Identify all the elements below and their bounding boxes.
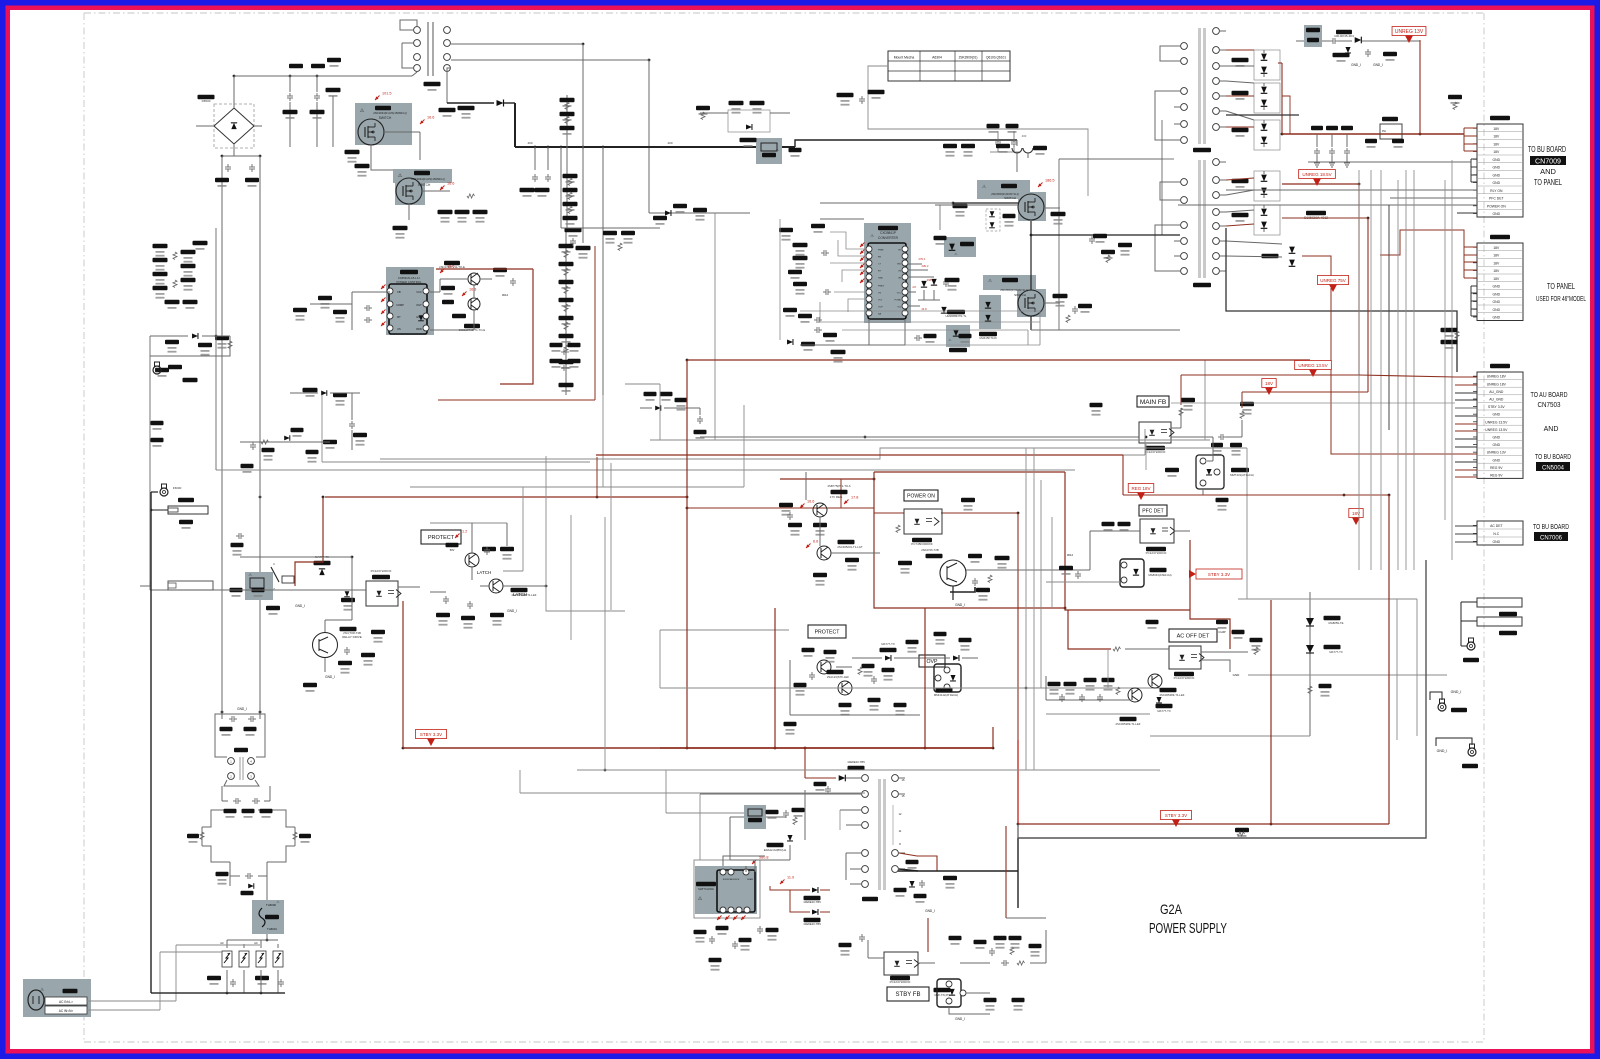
svg-text:3612: 3612 [1067,553,1074,557]
svg-text:GND: GND [1493,181,1501,185]
svg-text:CONVERTER: CONVERTER [878,236,899,240]
svg-text:UNREG 13.5V: UNREG 13.5V [1298,363,1327,368]
svg-text:AC IN<L>: AC IN<L> [59,1000,73,1004]
svg-text:POWER ON: POWER ON [907,493,935,499]
svg-text:REG 9V: REG 9V [1490,466,1503,470]
svg-text:RDD: RDD [416,327,422,331]
svg-text:STBY FB: STBY FB [896,992,921,998]
svg-text:MMT431(AT1ECH): MMT431(AT1ECH) [1230,473,1254,477]
svg-text:SOURCE: SOURCE [731,879,740,881]
svg-text:2SC305201-T1-LGT: 2SC305201-T1-LGT [837,545,863,549]
svg-text:Mount Mecha: Mount Mecha [894,56,915,60]
svg-text:CN7503: CN7503 [1538,402,1561,409]
svg-text:18V: 18V [1493,135,1500,139]
svg-text:⚠: ⚠ [775,147,779,152]
svg-text:106-RK35-3K3: 106-RK35-3K3 [1334,34,1354,38]
svg-text:GND_I: GND_I [295,604,305,608]
svg-text:AU_GND: AU_GND [1489,398,1504,402]
svg-text:PWM: PWM [878,250,884,252]
svg-text:GND: GND [1233,673,1241,677]
svg-text:MA777-TX: MA777-TX [881,642,895,646]
svg-text:PC745F0000XF: PC745F0000XF [911,542,933,546]
svg-text:18V: 18V [1493,277,1500,281]
svg-text:TO PANEL: TO PANEL [1547,282,1575,291]
svg-text:TH6000: TH6000 [266,903,276,907]
svg-text:18V: 18V [1493,269,1500,273]
svg-text:GND_I: GND_I [955,603,965,607]
svg-text:GND_I: GND_I [237,707,247,711]
svg-text:RELAY DRIVE: RELAY DRIVE [342,635,362,639]
svg-text:GND: GND [1493,292,1501,296]
svg-text:USED FOR 46"MODEL: USED FOR 46"MODEL [1536,296,1586,303]
svg-text:GND: GND [1493,436,1501,440]
svg-text:PC123Y22DOF: PC123Y22DOF [371,569,392,573]
svg-text:GND: GND [878,278,883,280]
svg-text:2SK3500(01)SONY1LQ: 2SK3500(01)SONY1LQ [1000,288,1028,292]
svg-text:2SC305289-T1-LEF: 2SC305289-T1-LEF [1115,722,1140,726]
svg-text:AC IN<N>: AC IN<N> [59,1009,74,1013]
svg-text:MA8059-TE: MA8059-TE [1329,621,1344,625]
svg-text:10E8E20-TB5: 10E8E20-TB5 [847,760,865,764]
svg-text:UNREG 13V: UNREG 13V [1395,29,1424,35]
svg-text:RT: RT [397,315,401,319]
svg-text:2SC305289-T1-LEF: 2SC305289-T1-LEF [1159,693,1184,697]
svg-text:6.6: 6.6 [813,540,818,544]
svg-text:PROTECT: PROTECT [815,629,841,635]
svg-text:AND: AND [1540,167,1556,176]
svg-text:TH6001: TH6001 [267,927,277,931]
svg-text:UNREG 75V: UNREG 75V [1320,278,1346,283]
svg-text:CN7006: CN7006 [1540,536,1563,542]
svg-text:Q6100,Q6101: Q6100,Q6101 [986,56,1006,60]
svg-text:UNREG 13.5V: UNREG 13.5V [1485,420,1508,424]
svg-text:GND: GND [1493,540,1501,544]
svg-text:TO BU BOARD: TO BU BOARD [1528,145,1566,154]
svg-text:N.C: N.C [1493,532,1499,536]
svg-text:SWITCHING: SWITCHING [698,887,714,891]
svg-text:AC: AC [254,941,258,945]
svg-text:16.6: 16.6 [447,265,454,269]
svg-text:2SC305289-T1-LEF: 2SC305289-T1-LEF [511,593,536,597]
svg-text:GND: GND [1493,443,1501,447]
svg-text:10E8E20-TB5: 10E8E20-TB5 [803,900,821,904]
svg-text:GND_I: GND_I [1437,749,1448,753]
svg-text:PC123Y22DOF: PC123Y22DOF [890,980,911,984]
svg-text:⚠: ⚠ [398,173,403,179]
svg-text:G2A: G2A [1160,901,1183,917]
svg-text:18V: 18V [1493,254,1500,258]
svg-text:UMZ6B8NTN-TL: UMZ6B8NTN-TL [946,314,967,318]
svg-text:STBY 3.3V: STBY 3.3V [1165,813,1187,818]
svg-text:GND: GND [1493,316,1501,320]
svg-text:18V: 18V [1265,381,1273,386]
svg-text:GND: GND [1493,300,1501,304]
svg-text:TO BU BOARD: TO BU BOARD [1535,454,1571,461]
svg-text:GND_I: GND_I [1351,63,1361,67]
svg-text:GND: GND [1493,413,1501,417]
svg-text:⚠: ⚠ [698,896,703,902]
svg-text:16.6: 16.6 [447,182,454,186]
svg-text:F6000: F6000 [173,486,182,490]
svg-text:POWER SUPPLY: POWER SUPPLY [1149,921,1227,937]
svg-text:MAIN FB: MAIN FB [1140,399,1166,406]
svg-text:GND: GND [1493,308,1501,312]
svg-text:UNREG 18V: UNREG 18V [1487,375,1507,379]
svg-text:PC123Y22DOF: PC123Y22DOF [1146,551,1167,555]
svg-text:GND: GND [1493,158,1501,162]
svg-text:UNREG 18.5V: UNREG 18.5V [1302,172,1331,177]
svg-text:OUT: OUT [416,303,422,307]
svg-text:2SK2706-T2B: 2SK2706-T2B [921,548,939,552]
svg-text:3612: 3612 [502,293,509,297]
svg-text:GND_I: GND_I [1451,690,1462,694]
svg-text:AND: AND [1544,426,1559,433]
svg-text:VCI: VCI [897,307,901,309]
svg-text:COMP: COMP [396,303,404,307]
svg-text:FB: FB [397,290,401,294]
svg-text:400: 400 [1022,134,1027,138]
svg-text:⚠: ⚠ [870,233,874,238]
svg-text:AC: AC [220,941,224,945]
svg-text:PC123Y22DOF: PC123Y22DOF [1174,676,1195,680]
svg-text:UNREG 13.5V: UNREG 13.5V [1485,428,1508,432]
svg-text:PC123Y22DOF: PC123Y22DOF [1145,450,1166,454]
svg-text:⚠: ⚠ [360,108,365,114]
svg-text:18V: 18V [1493,142,1500,146]
svg-text:MMI4142(AT1ECH): MMI4142(AT1ECH) [934,693,958,697]
svg-text:GND_I: GND_I [507,609,517,613]
svg-text:CXD9841P: CXD9841P [880,231,896,235]
svg-text:10E8E20-TB5: 10E8E20-TB5 [803,922,821,926]
svg-text:2SB775(P51-TO-6: 2SB775(P51-TO-6 [827,484,851,488]
svg-text:16.3: 16.3 [469,288,476,292]
svg-text:AC OFF DET: AC OFF DET [1177,633,1210,639]
svg-text:POWER ON: POWER ON [1487,204,1506,208]
svg-text:SWITCH: SWITCH [1004,196,1016,200]
svg-text:4.8: 4.8 [912,285,916,289]
svg-text:PROTECT: PROTECT [428,535,455,541]
svg-text:GND: GND [1493,173,1501,177]
svg-text:101.5: 101.5 [382,92,392,96]
svg-text:PFC DET: PFC DET [1142,508,1163,514]
svg-text:400: 400 [667,141,672,145]
svg-text:SWITCH: SWITCH [379,116,392,120]
svg-text:PA: PA [1382,129,1386,133]
svg-text:16.6: 16.6 [807,500,814,504]
svg-text:GND_I: GND_I [955,1017,965,1021]
svg-text:CS: CS [397,327,401,331]
svg-text:GND: GND [1493,166,1501,170]
svg-text:⚠: ⚠ [248,572,252,577]
svg-text:2SA123(STF-1EF: 2SA123(STF-1EF [827,675,850,679]
svg-text:RLY ON: RLY ON [1490,189,1503,193]
svg-text:CN7009: CN7009 [1535,159,1561,166]
svg-text:MA777-TX: MA777-TX [1157,709,1171,713]
svg-text:18V: 18V [1493,127,1500,131]
svg-text:PFC DET: PFC DET [1489,197,1504,201]
svg-text:TO BU BOARD: TO BU BOARD [1533,524,1569,531]
svg-text:11.9: 11.9 [787,876,794,880]
svg-text:GND_I: GND_I [925,909,935,913]
svg-text:VCC: VCC [416,290,422,294]
svg-text:16.6: 16.6 [427,116,434,120]
svg-text:STBY 3.3V: STBY 3.3V [1488,405,1505,409]
svg-text:ERA22-02(B53)-E: ERA22-02(B53)-E [764,848,787,852]
svg-text:2SK3934(01,RS)150MFLQ: 2SK3934(01,RS)150MFLQ [373,111,407,115]
svg-text:UNREG 13V: UNREG 13V [1487,451,1507,455]
svg-text:PGND: PGND [895,300,902,302]
svg-text:UNREG 18V: UNREG 18V [1487,382,1507,386]
svg-text:186.5: 186.5 [1045,179,1055,183]
svg-text:GND_I: GND_I [1373,63,1383,67]
svg-text:REG 9V: REG 9V [1490,474,1503,478]
svg-text:VD: VD [898,250,901,252]
svg-text:MA8043(ATE1CH): MA8043(ATE1CH) [1148,573,1171,577]
svg-text:TO AU BOARD: TO AU BOARD [1531,392,1568,399]
svg-text:TO PANEL: TO PANEL [1534,178,1562,187]
svg-text:1.2: 1.2 [462,530,467,534]
svg-text:UMZ15KT106: UMZ15KT106 [979,336,997,340]
svg-text:27N,1: 27N,1 [919,257,926,261]
svg-text:A6304: A6304 [932,56,942,60]
svg-text:2SK3909(01): 2SK3909(01) [959,56,978,60]
svg-text:50V: 50V [450,548,455,552]
svg-text:LATCH: LATCH [477,570,491,575]
svg-text:STBY 3.3V: STBY 3.3V [1208,572,1230,577]
svg-text:400: 400 [527,141,532,145]
svg-text:GND: GND [1493,285,1501,289]
svg-text:REG 18V: REG 18V [1131,486,1150,491]
svg-text:CN5004: CN5004 [1542,466,1565,472]
svg-text:AC DET: AC DET [1490,524,1502,528]
svg-text:GND_I: GND_I [325,675,335,679]
svg-text:PWDT: PWDT [878,286,885,288]
svg-text:MA777-TX: MA777-TX [1329,650,1343,654]
svg-text:OCP: OCP [878,307,883,309]
svg-text:DRAIN: DRAIN [747,878,754,881]
svg-text:GND: GND [1493,458,1501,462]
svg-text:18V: 18V [1493,246,1500,250]
svg-text:17.8: 17.8 [851,496,858,500]
svg-text:17V REG: 17V REG [830,495,843,499]
svg-text:D6500: D6500 [202,99,211,103]
svg-text:VCT: VCT [878,300,883,302]
svg-text:GND: GND [1493,212,1501,216]
svg-text:18V: 18V [1493,261,1500,265]
svg-text:18V: 18V [1493,150,1500,154]
svg-text:POWER CONTROL: POWER CONTROL [396,280,421,284]
svg-text:STBY 3.3V: STBY 3.3V [420,732,442,737]
svg-text:CHIP: CHIP [1218,630,1225,634]
svg-text:24.8: 24.8 [921,307,927,311]
svg-text:AU_GND: AU_GND [1489,390,1504,394]
svg-text:23N,2: 23N,2 [922,264,929,268]
